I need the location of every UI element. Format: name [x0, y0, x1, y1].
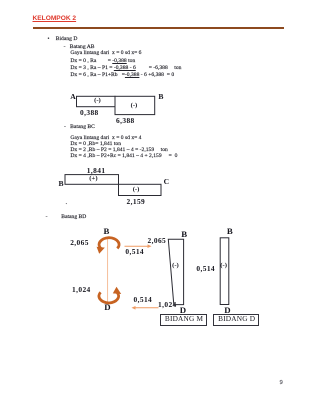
shear AB small (-) sign [94, 98, 101, 105]
caption box BIDANG D [213, 314, 259, 326]
shear diagram AB big box [115, 96, 155, 114]
node B label member [104, 227, 110, 236]
force arrow top right [125, 245, 150, 247]
value 0,514 member top [125, 248, 144, 255]
value 1,841 [87, 167, 106, 174]
item Batang AB [64, 45, 95, 51]
shear diagram AB small box [77, 96, 116, 106]
line Dx0 BC [70, 142, 121, 148]
value 6,388 [116, 117, 135, 124]
node C label BC [164, 178, 169, 186]
node D label member [104, 303, 110, 312]
line Dx2 BC [70, 148, 167, 154]
node D label bidang D [224, 306, 230, 315]
value 1,024 bidang M [158, 301, 177, 308]
line gaya lintang BC [70, 136, 141, 142]
moment sign (-) bidang M [172, 263, 179, 270]
apostrophe mark [66, 204, 68, 210]
value 0,388 [80, 109, 99, 116]
shear sign (-) bidang D [220, 263, 227, 270]
value 1,024 member bottom [72, 286, 91, 293]
bidang D rectangle [220, 238, 229, 305]
node B label bidang D [227, 227, 233, 236]
line Dx0 AB [70, 59, 135, 65]
moment arc top [99, 238, 119, 249]
force arrow bottom left [134, 307, 159, 309]
page number 9 [280, 380, 283, 386]
shear BC (+) sign [89, 176, 97, 183]
value 0,514 bottom [134, 296, 153, 303]
line gaya lintang AB [70, 51, 141, 57]
shear AB big (-) sign [131, 103, 138, 110]
bidang M trapezoid [168, 239, 183, 304]
node B label [158, 93, 163, 101]
line Dx6 AB [70, 73, 174, 79]
moment arc bottom [99, 292, 119, 303]
line Dx4 BC [70, 154, 177, 160]
node D label bidang M [180, 306, 186, 315]
line Dx3 AB [70, 66, 181, 72]
item Batang BD [46, 215, 87, 221]
node B label BC [59, 180, 64, 188]
shear BC (-) sign [133, 187, 140, 194]
header KELOMPOK 2 [33, 15, 77, 22]
item Batang BC [64, 125, 95, 131]
node A label [70, 93, 75, 101]
value 2,065 member top [70, 239, 89, 246]
caption box BIDANG M [160, 314, 207, 326]
shear diagram BC minus box [119, 184, 162, 195]
shear diagram BC plus box [65, 175, 119, 185]
node B label bidang M [181, 230, 187, 239]
header brown rule [33, 27, 284, 29]
bullet Bidang D [48, 37, 78, 43]
moment arc bottom arrowhead [113, 287, 121, 294]
value 2,065 bidang M [148, 237, 167, 244]
value 0,514 bidang D [196, 265, 215, 272]
value 2,159 [127, 198, 146, 205]
moment arc top arrowhead [97, 247, 105, 254]
member axis line [107, 237, 109, 304]
